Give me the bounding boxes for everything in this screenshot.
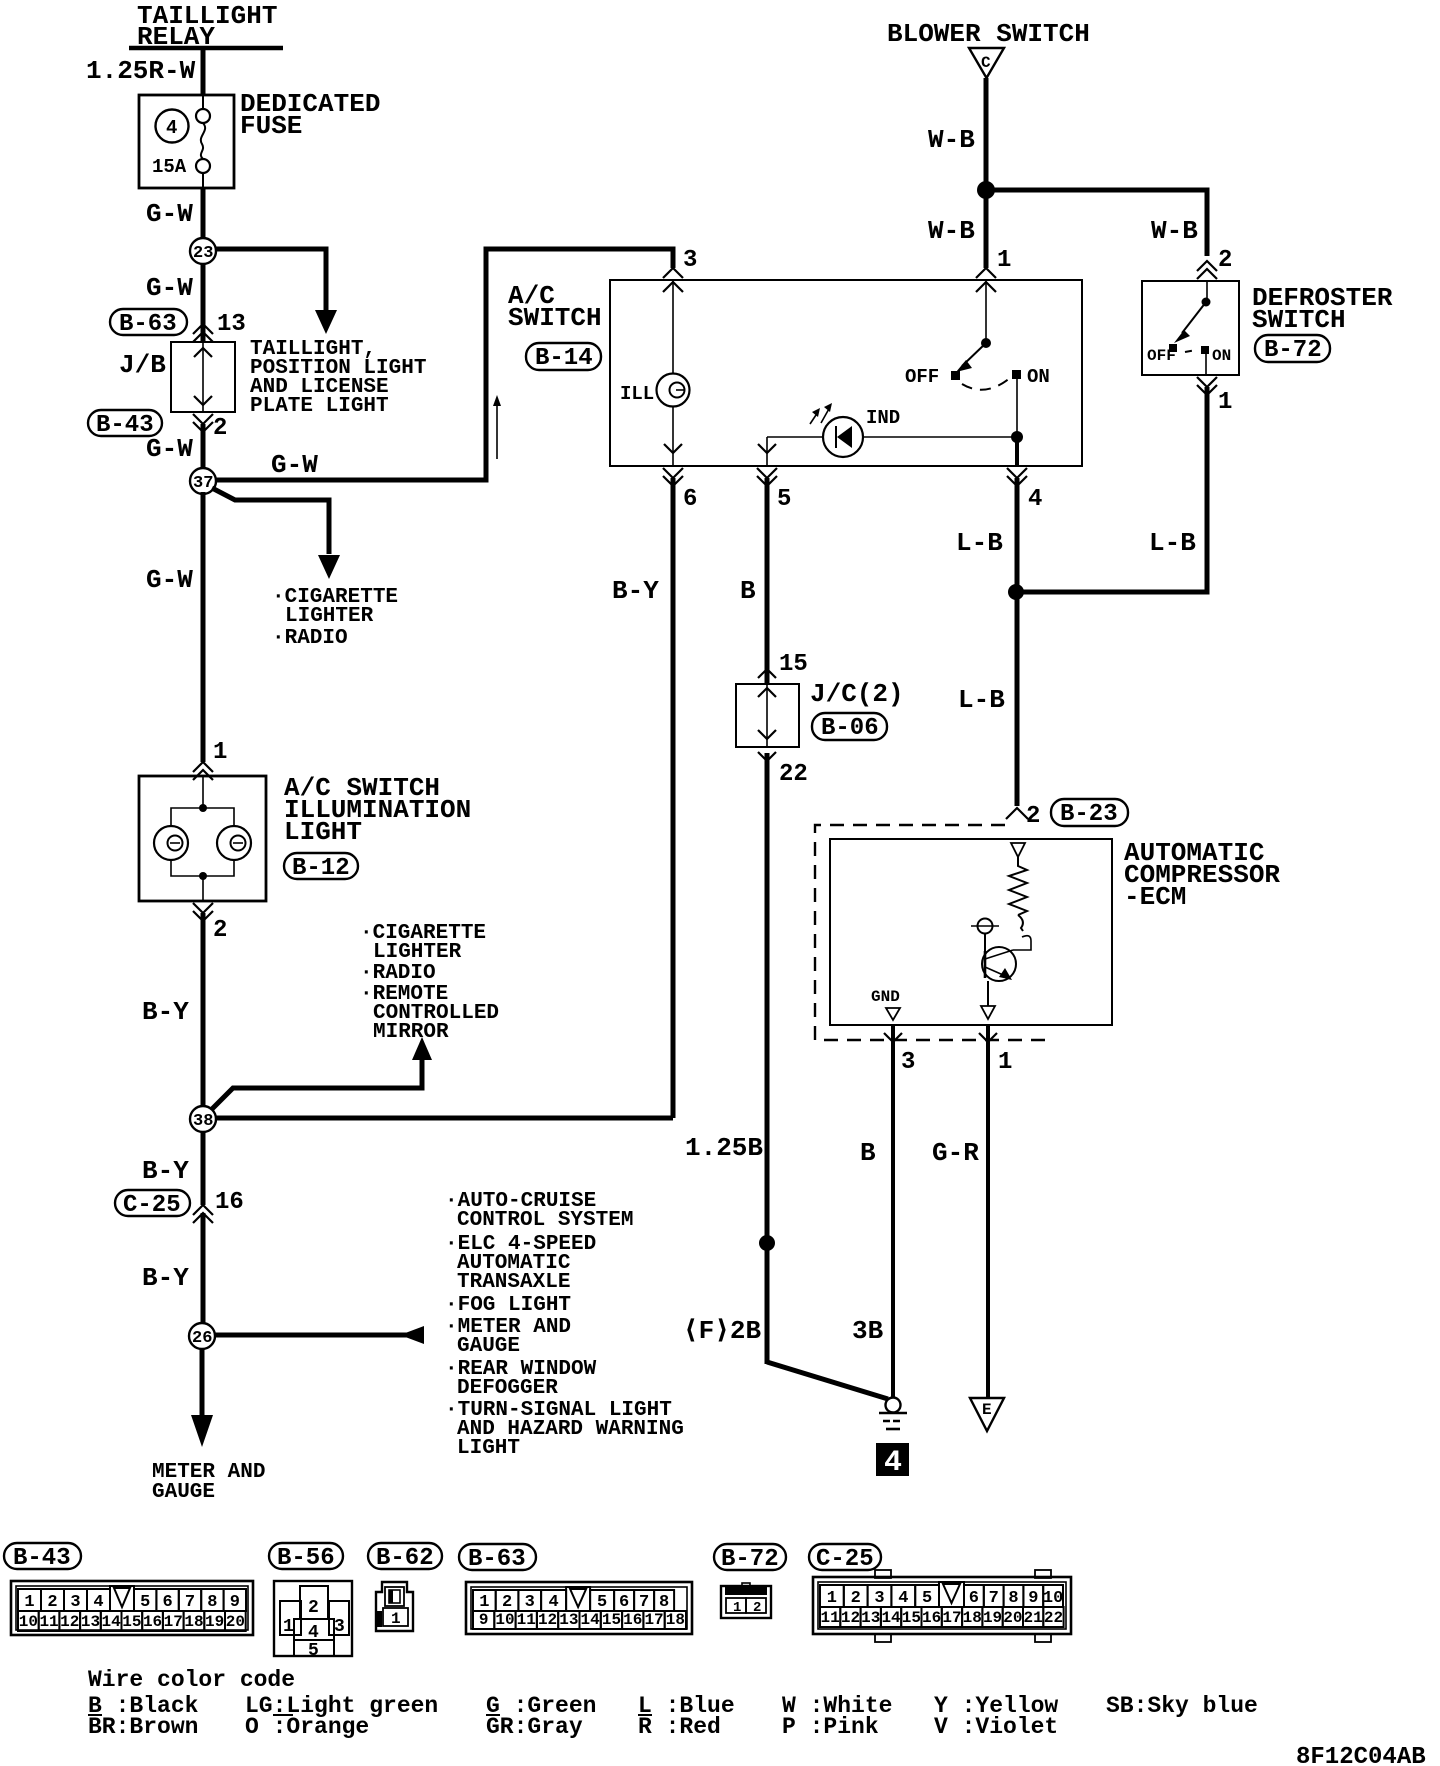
connector label B-72 stadium	[1255, 335, 1330, 362]
svg-text:2: 2	[1218, 247, 1232, 274]
defroster switch box	[1142, 281, 1239, 375]
svg-text:J/B: J/B	[119, 350, 166, 380]
pin 1 chevron top	[976, 268, 996, 278]
svg-text:V :Violet: V :Violet	[934, 1714, 1058, 1740]
svg-text:13: 13	[217, 311, 246, 338]
svg-text:Wire color code: Wire color code	[88, 1667, 295, 1693]
svg-text:P :Pink: P :Pink	[782, 1714, 879, 1740]
svg-text:L-B: L-B	[958, 685, 1005, 715]
connector label C-25 stadium	[115, 1190, 190, 1216]
svg-text:IND: IND	[866, 407, 900, 429]
svg-text:4: 4	[166, 117, 177, 139]
wire W-B junction to defroster	[986, 190, 1207, 256]
svg-text:B-62: B-62	[376, 1545, 434, 1572]
label defroster switch	[1252, 283, 1393, 335]
svg-text:16: 16	[623, 1611, 642, 1629]
svg-text:9: 9	[230, 1593, 240, 1612]
ECM dashed case	[815, 825, 1052, 1040]
svg-text:·RADIO: ·RADIO	[360, 962, 436, 985]
branch wire from 23 to taillight feed	[215, 249, 326, 312]
svg-text:5: 5	[308, 1641, 319, 1661]
ground symbol	[886, 1398, 901, 1413]
svg-text:12: 12	[841, 1609, 860, 1627]
arrow down to cigarette lighter	[318, 555, 340, 579]
arrow down meter and gauge	[191, 1415, 213, 1447]
svg-text:3: 3	[683, 247, 697, 274]
svg-text:C-25: C-25	[123, 1192, 181, 1219]
svg-text:GAUGE: GAUGE	[457, 1335, 520, 1358]
svg-text:G-W: G-W	[146, 565, 193, 595]
svg-text:17: 17	[942, 1609, 961, 1627]
svg-text:B-Y: B-Y	[142, 1156, 189, 1186]
svg-text:B: B	[740, 576, 756, 606]
svg-text:16: 16	[922, 1609, 941, 1627]
svg-text:23: 23	[193, 244, 213, 263]
svg-text:B-23: B-23	[1060, 801, 1118, 828]
svg-text:C-25: C-25	[816, 1546, 874, 1573]
pin 6 chevrons	[663, 468, 683, 478]
svg-text:LIGHTER: LIGHTER	[373, 941, 462, 964]
svg-text:3: 3	[70, 1593, 80, 1612]
svg-text:SWITCH: SWITCH	[508, 303, 602, 333]
svg-text:GAUGE: GAUGE	[152, 1481, 215, 1504]
svg-text:C: C	[981, 54, 991, 72]
svg-text:17: 17	[644, 1611, 663, 1629]
svg-text:12: 12	[60, 1613, 79, 1631]
svg-text:B-Y: B-Y	[142, 997, 189, 1027]
junction connector J/C(2) box	[736, 684, 799, 747]
connector B-63 pinout	[466, 1582, 692, 1634]
wire 1.25B J/C down	[765, 753, 770, 1364]
svg-text:B-43: B-43	[13, 1545, 71, 1572]
svg-text:5: 5	[922, 1589, 932, 1608]
svg-text:B-56: B-56	[277, 1545, 335, 1572]
svg-text:15: 15	[779, 651, 808, 678]
transistor Q1	[982, 947, 1016, 981]
svg-text:L-B: L-B	[1149, 528, 1196, 558]
svg-text:3: 3	[901, 1049, 915, 1076]
label taillight position light	[250, 338, 426, 418]
connector label B-63 stadium bottom	[459, 1544, 536, 1570]
svg-text:18: 18	[963, 1609, 982, 1627]
wire B-Y C-25 to junction 26	[201, 1213, 206, 1324]
svg-text:22: 22	[1044, 1609, 1063, 1627]
svg-text:B-Y: B-Y	[142, 1263, 189, 1293]
defroster pin 2 chevrons	[1197, 261, 1217, 271]
svg-text:22: 22	[779, 761, 808, 788]
svg-text:7: 7	[989, 1589, 999, 1608]
internal wiring and lamps	[202, 776, 204, 808]
svg-text:1.25R-W: 1.25R-W	[86, 56, 196, 86]
svg-text:W-B: W-B	[1151, 216, 1198, 246]
wire B pin 5 to J/C	[765, 478, 770, 684]
svg-text:6: 6	[683, 486, 697, 513]
svg-text:1: 1	[733, 1600, 741, 1616]
connector label C-25 stadium bottom	[809, 1544, 881, 1570]
svg-text:GR:Gray: GR:Gray	[486, 1714, 583, 1740]
svg-text:BLOWER SWITCH: BLOWER SWITCH	[887, 19, 1090, 49]
svg-text:G-W: G-W	[146, 273, 193, 303]
wire B-Y 38 down to C-25	[201, 1131, 206, 1205]
ECM input triangle	[1011, 843, 1025, 857]
svg-text:8: 8	[207, 1593, 217, 1612]
svg-text:6: 6	[969, 1589, 979, 1608]
svg-text:13: 13	[559, 1611, 578, 1629]
connector label B-62 stadium	[368, 1543, 442, 1569]
svg-text:G-W: G-W	[146, 434, 193, 464]
svg-text:5: 5	[777, 486, 791, 513]
svg-text:6: 6	[163, 1593, 173, 1612]
svg-text:14: 14	[881, 1609, 901, 1627]
svg-text:15A: 15A	[152, 156, 187, 178]
automatic compressor ECM box	[830, 839, 1112, 1025]
connector B-72 pinout	[721, 1586, 771, 1618]
connector chevron pin 3	[663, 268, 683, 278]
wire W-B junction down to A/C pin 1	[984, 190, 989, 268]
label A/C switch	[508, 281, 602, 333]
svg-text:ILL: ILL	[620, 383, 654, 405]
svg-text:LIGHTER: LIGHTER	[285, 605, 374, 628]
resistor in ECM	[1009, 857, 1027, 915]
svg-text:2: 2	[47, 1593, 57, 1612]
ground connector triangle E	[970, 1398, 1004, 1431]
flow arrow up	[496, 402, 498, 459]
svg-text:1: 1	[997, 247, 1011, 274]
connector chevrons into illumination light	[193, 762, 213, 772]
svg-text:2: 2	[502, 1593, 512, 1612]
fuse number circle 4	[156, 110, 189, 143]
svg-text:B-Y: B-Y	[612, 576, 659, 606]
blower switch connector triangle C	[969, 48, 1004, 78]
J/C chevron top	[758, 669, 776, 678]
svg-text:9: 9	[479, 1611, 489, 1629]
connector chevrons out of J/B	[193, 414, 213, 424]
connector label B-43 stadium bottom	[4, 1543, 81, 1569]
junction circle 23	[190, 238, 216, 264]
svg-text:2: 2	[851, 1589, 861, 1608]
legend underline marks	[88, 1714, 102, 1716]
svg-text:1: 1	[24, 1593, 34, 1612]
svg-text:15: 15	[902, 1609, 921, 1627]
svg-text:O :Orange: O :Orange	[245, 1714, 369, 1740]
svg-text:J/C(2): J/C(2)	[810, 679, 904, 709]
svg-text:3B: 3B	[852, 1316, 884, 1346]
wire 1.25R-W from relay to fuse	[201, 48, 206, 96]
pin 1 wire top	[1016, 379, 1018, 437]
ground reference black box 4	[876, 1443, 909, 1476]
wire diagonal to ground	[767, 1362, 888, 1399]
svg-text:⟨F⟩2B: ⟨F⟩2B	[683, 1316, 762, 1346]
junction dot blower	[977, 181, 995, 199]
svg-text:-ECM: -ECM	[1124, 882, 1186, 912]
svg-text:MIRROR: MIRROR	[373, 1021, 449, 1044]
defroster pin 1 chevrons	[1197, 377, 1217, 387]
wire from 38 to B-Y column right	[215, 1116, 673, 1121]
svg-text:13: 13	[861, 1609, 880, 1627]
svg-text:2: 2	[753, 1600, 761, 1616]
wire B-Y pin 6 down to 38 line	[671, 478, 676, 1118]
svg-text:1: 1	[391, 1610, 401, 1628]
svg-text:37: 37	[193, 474, 213, 493]
pin 4 chevrons	[1007, 468, 1027, 478]
svg-text:14: 14	[581, 1611, 601, 1629]
svg-text:19: 19	[205, 1613, 224, 1631]
fuse element (terminals and wavy link)	[202, 95, 204, 109]
connector label B-12 stadium	[284, 853, 358, 879]
wire color code legend	[88, 1667, 1258, 1740]
svg-text:SWITCH: SWITCH	[1252, 305, 1346, 335]
svg-text:2: 2	[1026, 803, 1040, 830]
svg-text:TRANSAXLE: TRANSAXLE	[457, 1271, 570, 1294]
svg-text:3: 3	[874, 1589, 884, 1608]
lamp right	[217, 826, 251, 860]
ECM pin 3 chevron	[884, 1033, 902, 1042]
junction circle 37	[190, 468, 216, 494]
svg-text:BR:Brown: BR:Brown	[88, 1714, 198, 1740]
svg-text:4: 4	[549, 1593, 559, 1612]
arrow to meter and gauge	[400, 1326, 424, 1344]
defroster switch contacts	[1206, 281, 1208, 302]
svg-text:8: 8	[659, 1593, 669, 1612]
connector B-62 pinout	[376, 1582, 413, 1631]
branch wire from 38 to mirror arrow	[211, 1058, 422, 1110]
junction dot L-B	[1008, 584, 1024, 600]
svg-text:17: 17	[164, 1613, 183, 1631]
svg-text:SB:Sky blue: SB:Sky blue	[1106, 1693, 1258, 1719]
svg-text:11: 11	[517, 1611, 536, 1629]
wire W-B blower to junction	[984, 78, 989, 190]
A/C switch contacts OFF-ON	[985, 280, 987, 343]
svg-text:15: 15	[122, 1613, 141, 1631]
connector chevrons C-25	[193, 1205, 213, 1215]
pin 5 wire inside box	[766, 437, 768, 466]
svg-text:4: 4	[898, 1589, 908, 1608]
svg-text:2: 2	[213, 917, 227, 944]
svg-text:5: 5	[140, 1593, 150, 1612]
label meter and gauge	[152, 1461, 265, 1504]
svg-text:·RADIO: ·RADIO	[272, 627, 348, 650]
svg-text:6: 6	[619, 1593, 629, 1612]
pin 5 chevrons	[757, 468, 777, 478]
label DEDICATED FUSE	[240, 89, 380, 141]
svg-text:9: 9	[1028, 1589, 1038, 1608]
svg-text:B: B	[860, 1138, 876, 1168]
junction block J/B box	[171, 342, 235, 412]
collector lead hook	[1013, 941, 1031, 950]
lamp left	[154, 826, 188, 860]
ILL lamp wire	[672, 280, 674, 375]
svg-text:21: 21	[1024, 1609, 1043, 1627]
A/C switch illumination light box	[139, 776, 266, 901]
connector label B-43 stadium	[88, 410, 162, 436]
svg-text:15: 15	[602, 1611, 621, 1629]
svg-text:1: 1	[283, 1617, 294, 1637]
svg-text:B-63: B-63	[468, 1546, 526, 1573]
svg-text:W-B: W-B	[928, 216, 975, 246]
wire down to meter and gauge	[200, 1349, 205, 1420]
svg-text:GND: GND	[871, 988, 900, 1006]
junction dot 1.25B	[759, 1235, 775, 1251]
svg-text:FUSE: FUSE	[240, 111, 302, 141]
svg-text:4: 4	[1028, 486, 1042, 513]
wire B ECM pin3 to ground	[891, 1025, 895, 1398]
svg-text:4: 4	[884, 1446, 902, 1480]
svg-text:LIGHT: LIGHT	[457, 1437, 520, 1460]
connector label B-63 stadium	[110, 309, 187, 335]
svg-text:1: 1	[213, 739, 227, 766]
svg-text:2: 2	[213, 415, 227, 442]
branch wire from 26 to meter and gauge	[215, 1333, 409, 1338]
svg-text:B-63: B-63	[119, 311, 177, 338]
connector label B-14 stadium	[526, 343, 601, 370]
svg-text:B-72: B-72	[721, 1546, 779, 1573]
svg-text:19: 19	[983, 1609, 1002, 1627]
connector label B-72 stadium bottom	[714, 1544, 786, 1570]
svg-text:OFF: OFF	[1147, 347, 1176, 365]
svg-text:1: 1	[998, 1049, 1012, 1076]
svg-text:26: 26	[192, 1329, 212, 1348]
svg-text:PLATE LIGHT: PLATE LIGHT	[250, 395, 389, 418]
arrow down to taillight loads	[315, 310, 337, 334]
wire G-W J/B to junction 37	[201, 424, 206, 470]
wire L-B A/C pin 4 down	[1015, 478, 1020, 806]
svg-text:LIGHT: LIGHT	[284, 817, 362, 847]
wire L-B defroster down and left	[1015, 387, 1207, 592]
svg-text:R :Red: R :Red	[638, 1714, 721, 1740]
IND led line	[767, 436, 1017, 438]
svg-text:2: 2	[308, 1598, 319, 1618]
svg-text:8F12C04AB: 8F12C04AB	[1296, 1744, 1426, 1766]
svg-text:B-12: B-12	[292, 855, 350, 882]
svg-text:20: 20	[1003, 1609, 1022, 1627]
svg-text:16: 16	[215, 1189, 244, 1216]
wire G-W 37 down to illumination light	[201, 492, 206, 762]
connector chevrons out of illumination light	[193, 903, 213, 913]
connector label B-56 stadium	[269, 1543, 343, 1569]
svg-text:7: 7	[185, 1593, 195, 1612]
svg-text:14: 14	[102, 1613, 122, 1631]
svg-text:12: 12	[538, 1611, 557, 1629]
svg-text:10: 10	[19, 1613, 38, 1631]
svg-text:13: 13	[81, 1613, 100, 1631]
label A/C switch illumination light	[284, 773, 471, 847]
ECM pin 1 chevron	[979, 1033, 997, 1042]
svg-text:20: 20	[226, 1613, 245, 1631]
svg-text:CONTROL SYSTEM: CONTROL SYSTEM	[457, 1209, 633, 1232]
svg-text:G-W: G-W	[146, 199, 193, 229]
svg-text:1: 1	[827, 1589, 837, 1608]
svg-text:B-72: B-72	[1264, 337, 1322, 364]
svg-text:L-B: L-B	[956, 528, 1003, 558]
LED light arrows	[810, 412, 818, 424]
svg-text:DEFOGGER: DEFOGGER	[457, 1377, 558, 1400]
svg-text:ON: ON	[1212, 347, 1231, 365]
arrow up to remote mirror	[412, 1037, 432, 1060]
connector B-56 pinout	[274, 1581, 352, 1656]
wire G-W from 37 to A/C switch pin 3	[216, 249, 673, 480]
taillight relay feed label	[137, 1, 277, 52]
connector C-25 pinout	[875, 1570, 891, 1578]
svg-text:1: 1	[1218, 389, 1232, 416]
svg-text:7: 7	[639, 1593, 649, 1612]
connector label B-06 stadium	[812, 713, 887, 740]
svg-text:3: 3	[334, 1617, 345, 1637]
taillight relay bus bar	[129, 46, 283, 51]
svg-text:B-06: B-06	[821, 715, 879, 742]
branch from 37 to cigarette lighter / radio	[212, 488, 329, 554]
wire G-W fuse to junction 23	[201, 188, 206, 239]
svg-text:3: 3	[525, 1593, 535, 1612]
svg-text:OFF: OFF	[905, 366, 939, 388]
transistor base terminal	[978, 919, 993, 934]
connector label B-23 stadium	[1051, 799, 1128, 826]
wire B-Y illumination to junction 38	[201, 913, 206, 1108]
svg-text:W-B: W-B	[928, 125, 975, 155]
svg-text:B-43: B-43	[96, 412, 154, 439]
svg-text:5: 5	[597, 1593, 607, 1612]
svg-text:·FOG LIGHT: ·FOG LIGHT	[445, 1294, 571, 1317]
svg-text:1.25B: 1.25B	[685, 1133, 763, 1163]
emitter lead to pin 1	[987, 981, 989, 1006]
J/C chevron bottom	[758, 752, 776, 761]
ILL lamp	[657, 374, 690, 407]
A/C switch box	[610, 280, 1082, 466]
svg-text:B-14: B-14	[535, 345, 593, 372]
svg-text:8: 8	[1008, 1589, 1018, 1608]
label automatic compressor ECM	[1124, 838, 1280, 912]
svg-text:ON: ON	[1027, 366, 1050, 388]
svg-text:16: 16	[143, 1613, 162, 1631]
junction circle 38	[190, 1106, 216, 1132]
svg-text:10: 10	[1043, 1589, 1063, 1608]
connector B-43 pinout	[11, 1581, 253, 1635]
IND LED	[823, 417, 863, 457]
svg-text:G-W: G-W	[271, 450, 318, 480]
dedicated fuse F4 box	[139, 95, 234, 188]
wire G-W 23 to J/B	[201, 263, 206, 342]
svg-text:11: 11	[39, 1613, 58, 1631]
svg-text:E: E	[982, 1401, 992, 1419]
junction circle 26	[189, 1323, 215, 1349]
label cigarette lighter radio	[272, 586, 398, 650]
svg-text:10: 10	[495, 1611, 514, 1629]
svg-text:G-R: G-R	[932, 1138, 979, 1168]
label auto-cruise list	[445, 1190, 684, 1460]
svg-text:38: 38	[193, 1112, 213, 1131]
svg-text:18: 18	[184, 1613, 203, 1631]
svg-text:11: 11	[821, 1609, 840, 1627]
wire inside J/B	[202, 342, 204, 412]
label cigarette lighter radio remote mirror	[360, 922, 499, 1044]
svg-text:18: 18	[666, 1611, 685, 1629]
connector chevrons into J/B	[193, 332, 213, 342]
wire G-R ECM pin1 to E	[986, 1025, 990, 1398]
svg-text:1: 1	[479, 1593, 489, 1612]
svg-text:4: 4	[93, 1593, 103, 1612]
